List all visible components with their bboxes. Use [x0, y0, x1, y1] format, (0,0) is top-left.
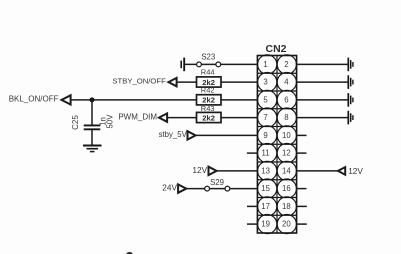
wire stub pin20: [297, 223, 307, 225]
svg-text:12V: 12V: [192, 165, 207, 175]
arrow 24V: [178, 184, 186, 192]
wire stub pin12: [297, 152, 307, 154]
arrow PWM_DIM: [159, 113, 167, 121]
resistor R43: [197, 112, 222, 122]
arrow 12V left: [209, 167, 217, 175]
wire pin9 row: [196, 134, 258, 136]
svg-text:stby_5V: stby_5V: [159, 130, 188, 139]
svg-text:STBY_ON/OFF: STBY_ON/OFF: [112, 76, 166, 85]
svg-text:4: 4: [284, 78, 289, 87]
svg-text:9: 9: [263, 131, 267, 140]
svg-text:8: 8: [284, 113, 288, 122]
wire pin6 row: [297, 99, 348, 101]
svg-text:50V: 50V: [105, 114, 114, 129]
svg-text:BKL_ON/OFF: BKL_ON/OFF: [9, 95, 59, 104]
junction node: [90, 97, 95, 102]
wire pin4 row: [297, 81, 348, 83]
wire stub pin10: [297, 134, 307, 136]
wire junction to C25: [91, 100, 93, 125]
ground pin6: [348, 93, 353, 107]
wire stub pin19: [247, 223, 257, 225]
pin numbers: [261, 60, 291, 229]
svg-text:18: 18: [282, 202, 291, 211]
svg-text:S23: S23: [201, 53, 215, 62]
wire pin5 row: [71, 99, 197, 101]
wire pin1 row: [184, 63, 257, 65]
wire C25 to ground: [91, 129, 93, 145]
capacitor C25: [84, 125, 101, 129]
svg-text:R43: R43: [201, 104, 215, 113]
svg-text:PWM_DIM: PWM_DIM: [118, 112, 157, 121]
ground pin2: [348, 58, 353, 72]
svg-text:S29: S29: [210, 178, 224, 187]
svg-text:CN2: CN2: [265, 43, 286, 55]
svg-text:12V: 12V: [348, 166, 363, 176]
arrow 12V right: [338, 167, 345, 175]
svg-text:20: 20: [282, 220, 291, 229]
resistor R42: [197, 95, 222, 105]
ground pin4: [348, 75, 353, 89]
svg-text:7: 7: [263, 113, 267, 122]
wire pin2 row: [297, 63, 348, 65]
resistor R44: [197, 77, 222, 87]
ground below C25: [83, 146, 102, 152]
wire pin13 row: [217, 170, 258, 172]
svg-text:10: 10: [282, 131, 291, 140]
wire stub pin16: [297, 188, 307, 190]
svg-text:6: 6: [284, 96, 288, 105]
svg-text:2: 2: [284, 60, 288, 69]
wire pin7 row: [167, 117, 197, 119]
svg-text:14: 14: [282, 167, 291, 176]
wire stub pin17: [247, 205, 257, 207]
svg-text:12: 12: [282, 149, 291, 158]
wire stub pin11: [247, 152, 258, 154]
svg-text:19: 19: [261, 220, 270, 229]
svg-text:R44: R44: [201, 67, 215, 76]
svg-text:3: 3: [263, 78, 267, 87]
svg-text:5: 5: [263, 96, 268, 105]
wire stub pin18: [297, 205, 307, 207]
jumper S29 pads: [205, 186, 210, 191]
svg-text:R42: R42: [201, 85, 215, 94]
arrow STBY_ON/OFF: [169, 78, 177, 86]
svg-text:16: 16: [282, 184, 291, 193]
svg-text:C25: C25: [71, 115, 80, 130]
arrow stby_5V: [188, 131, 196, 139]
connector CN2 pin circles: [258, 55, 297, 234]
svg-text:15: 15: [261, 184, 270, 193]
svg-text:13: 13: [261, 167, 270, 176]
wire pin15 row: [186, 188, 257, 190]
bottom edge artifact: [127, 252, 133, 254]
svg-text:17: 17: [261, 202, 270, 211]
svg-text:11: 11: [262, 149, 270, 158]
jumper S23 pads: [197, 62, 202, 67]
wire pin3 row: [177, 81, 197, 83]
ground left of S23: [181, 58, 184, 72]
connector CN2 grid: [257, 56, 296, 234]
wire pin14 row: [297, 170, 338, 172]
wire pin8 row: [297, 117, 348, 119]
arrow BKL_ON/OFF: [62, 95, 71, 104]
svg-text:1: 1: [263, 60, 267, 69]
svg-text:24V: 24V: [162, 182, 177, 192]
ground pin8: [348, 111, 353, 125]
svg-text:2k2: 2k2: [202, 113, 215, 122]
